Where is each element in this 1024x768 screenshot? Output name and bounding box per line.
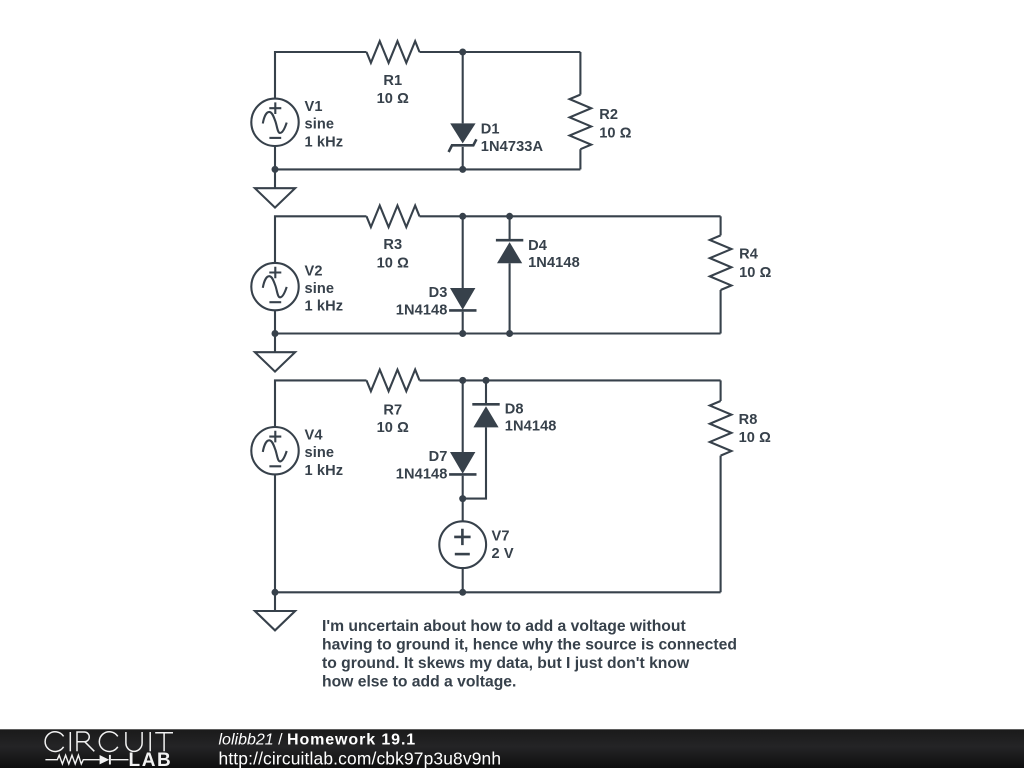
- wire: circuit1 bottom: [275, 168, 580, 170]
- logo letter R: [77, 732, 94, 751]
- wire: D7 branch upper: [462, 380, 464, 452]
- svg-text:1 kHz: 1 kHz: [305, 134, 344, 150]
- svg-text:10 Ω: 10 Ω: [599, 125, 632, 141]
- wire: V2 bottom stub: [274, 310, 276, 333]
- wire: circuit1 top-left from V1 to R1: [275, 52, 367, 99]
- svg-text:R3: R3: [383, 237, 402, 253]
- wire: D8 branch lower to junction: [463, 427, 486, 498]
- wire: D4 branch lower: [509, 263, 511, 333]
- wire: V1 bottom stub: [274, 146, 276, 169]
- wire: circuit1 top from R1 to R2 branch: [420, 51, 581, 53]
- wire: D8 branch upper: [485, 380, 487, 403]
- node: circuit1 top node at D1: [459, 49, 466, 56]
- logo letter I: [149, 732, 151, 751]
- svg-text:R4: R4: [739, 246, 759, 262]
- svg-text:D4: D4: [528, 238, 548, 254]
- node: circuit2 top at D4: [506, 213, 513, 220]
- svg-text:LAB: LAB: [129, 750, 173, 768]
- svg-text:10 Ω: 10 Ω: [739, 430, 772, 446]
- resistor R3: [367, 206, 420, 272]
- footer bar: [0, 729, 1024, 768]
- diode D3 1N4148: [396, 285, 477, 318]
- svg-text:R1: R1: [383, 73, 402, 89]
- logo letter C: [45, 732, 63, 752]
- svg-text:1 kHz: 1 kHz: [305, 463, 344, 479]
- node: circuit3 top at D8: [483, 377, 490, 384]
- logo letter U: [126, 732, 142, 751]
- wire: circuit3 bottom: [275, 591, 721, 593]
- svg-text:1N4148: 1N4148: [528, 255, 580, 271]
- svg-text:10 Ω: 10 Ω: [377, 255, 410, 271]
- node: circuit1 bottom at V1: [272, 166, 279, 173]
- ground: circuit1: [255, 169, 295, 207]
- svg-text:V1: V1: [305, 99, 323, 115]
- svg-text:http://circuitlab.com/cbk97p3u: http://circuitlab.com/cbk97p3u8v9nh: [219, 749, 502, 768]
- resistor R2: [570, 95, 632, 150]
- svg-text:V7: V7: [492, 528, 510, 544]
- resistor R7: [367, 370, 420, 437]
- resistor R8: [710, 401, 771, 456]
- resistor R1: [367, 41, 420, 107]
- voltage source V4: [251, 427, 343, 479]
- diode D8 1N4148: [472, 401, 556, 434]
- svg-text:1 kHz: 1 kHz: [305, 299, 344, 315]
- node: circuit2 top at D3: [459, 213, 466, 220]
- voltage source V1: [251, 99, 343, 151]
- wire: R2 branch upper: [579, 52, 581, 95]
- svg-text:R2: R2: [599, 107, 618, 123]
- ground: circuit3: [255, 592, 295, 630]
- svg-text:lolibb21 / Homework 19.1: lolibb21 / Homework 19.1: [219, 731, 417, 748]
- wire: circuit2 top from R3 to R4 branch: [420, 215, 721, 217]
- diode D7 1N4148: [396, 449, 477, 482]
- svg-text:sine: sine: [305, 445, 335, 461]
- svg-text:D8: D8: [505, 401, 524, 417]
- resistor R4: [710, 235, 772, 290]
- diode D4 1N4148: [496, 238, 580, 271]
- wire: R2 branch lower: [579, 149, 581, 169]
- node: circuit3 bottom at V7: [459, 589, 466, 596]
- voltage source V7 2V: [439, 521, 514, 568]
- node: circuit2 bottom at V2: [272, 330, 279, 337]
- svg-text:1N4148: 1N4148: [505, 419, 557, 435]
- wire: V4 bottom stub: [274, 474, 276, 592]
- wire: D3 branch lower: [462, 312, 464, 334]
- logo resistor-diode glyph: [45, 755, 99, 764]
- wire: R8 branch upper: [720, 380, 722, 401]
- logo letter T: [155, 733, 173, 752]
- svg-text:I'm uncertain about how to add: I'm uncertain about how to add a voltage…: [322, 618, 686, 635]
- svg-text:R8: R8: [739, 412, 758, 428]
- svg-text:sine: sine: [305, 281, 335, 297]
- svg-text:how else to add a voltage.: how else to add a voltage.: [322, 673, 516, 690]
- svg-text:having to ground it, hence why: having to ground it, hence why the sourc…: [322, 637, 737, 654]
- svg-text:R7: R7: [383, 402, 402, 418]
- wire: D7 branch lower to junction: [462, 476, 464, 499]
- node: circuit1 bottom at D1: [459, 166, 466, 173]
- svg-text:10 Ω: 10 Ω: [377, 91, 410, 107]
- wire: R8 branch lower: [720, 456, 722, 593]
- annotation text: [322, 618, 737, 690]
- wire: circuit3 top-left from V4 to R7: [275, 380, 367, 427]
- node: circuit3 bottom at V4: [272, 589, 279, 596]
- svg-text:10 Ω: 10 Ω: [377, 420, 410, 436]
- node: circuit2 bottom at D4: [506, 330, 513, 337]
- node: circuit3 top at D7: [459, 377, 466, 384]
- ground: circuit2: [255, 334, 295, 372]
- node: junction D7 D8 V7: [459, 495, 466, 502]
- node: circuit2 bottom at D3: [459, 330, 466, 337]
- logo letter C: [99, 732, 117, 752]
- zener diode D1 1N4733A: [449, 122, 544, 155]
- wire: circuit2 top-left from V2 to R3: [275, 216, 367, 263]
- svg-text:to ground. It skews my data, b: to ground. It skews my data, but I just …: [322, 655, 690, 672]
- svg-text:1N4148: 1N4148: [396, 466, 448, 482]
- svg-text:D3: D3: [429, 285, 448, 301]
- svg-text:V4: V4: [305, 427, 324, 443]
- svg-text:10 Ω: 10 Ω: [739, 265, 772, 281]
- svg-text:1N4148: 1N4148: [396, 302, 448, 318]
- svg-text:D1: D1: [481, 122, 500, 138]
- svg-text:2 V: 2 V: [492, 546, 514, 562]
- wire: R4 branch lower: [720, 290, 722, 334]
- wire: D4 branch upper: [509, 216, 511, 239]
- wire: circuit3 top from R7 to R8 branch: [420, 379, 721, 381]
- wire: R4 branch upper: [720, 216, 722, 235]
- svg-text:sine: sine: [305, 117, 335, 133]
- wire: circuit2 bottom: [275, 332, 721, 334]
- wire: V7 bottom stub: [462, 568, 464, 592]
- logo letter I: [69, 732, 71, 751]
- svg-text:V2: V2: [305, 263, 323, 279]
- voltage source V2: [251, 263, 343, 315]
- svg-text:1N4733A: 1N4733A: [481, 139, 544, 155]
- wire: D1 branch upper: [462, 52, 464, 123]
- wire: D1 branch lower: [462, 147, 464, 170]
- svg-text:D7: D7: [429, 449, 448, 465]
- wire: D3 branch upper: [462, 216, 464, 288]
- CircuitLab logo: [45, 732, 173, 768]
- wire: junction to V7 top: [462, 499, 464, 522]
